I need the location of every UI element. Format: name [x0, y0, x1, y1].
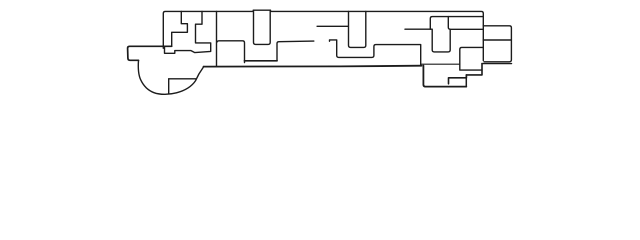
hanging U channel — [349, 11, 366, 47]
vertical under top bump left — [254, 10, 271, 44]
crossbar between rail verticals — [244, 60, 277, 62]
small step notch — [330, 40, 421, 66]
rail top left segment — [277, 41, 314, 61]
vertical divider mid-left — [216, 11, 218, 66]
inner top box — [430, 17, 483, 30]
bowl inner vertical — [168, 79, 170, 94]
interior shelf line — [317, 25, 348, 27]
right block internals — [482, 26, 484, 61]
thick vertical right of lower box — [449, 64, 483, 84]
parts-diagram line drawing of a bracket — [0, 0, 640, 105]
interior long ledge — [405, 28, 432, 30]
lower small box under ledge — [432, 29, 450, 52]
main bottom edge — [204, 65, 422, 68]
bowl inner ledge — [169, 78, 197, 80]
left flange — [128, 46, 172, 60]
right block shelf — [483, 39, 511, 41]
right block ledge and long vertical — [460, 47, 484, 70]
main outline: top edge with right step — [163, 10, 511, 62]
clip slot A verticals — [172, 11, 188, 46]
lower line under right block — [482, 63, 512, 65]
thin bottom ledge right — [422, 63, 460, 65]
lower box outline — [423, 66, 466, 87]
left edge cross tick — [162, 46, 164, 48]
lower box right vertical — [465, 75, 467, 87]
mid box top — [217, 41, 244, 63]
bowl outer arc — [138, 60, 204, 94]
inner top box divider — [448, 17, 483, 30]
clip slot A right side — [165, 11, 211, 53]
